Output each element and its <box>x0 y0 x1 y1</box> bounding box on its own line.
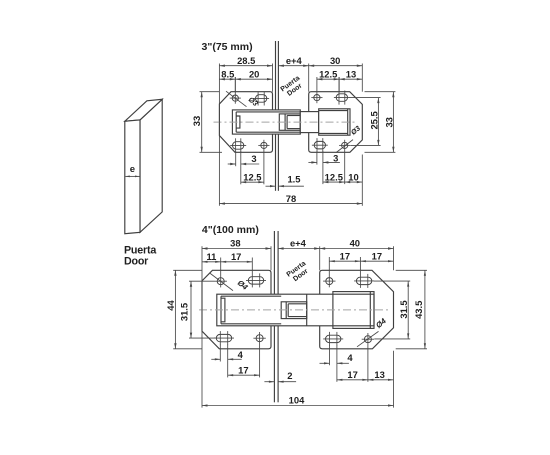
svg-text:44: 44 <box>165 300 176 311</box>
dimension e+4 (top) <box>278 65 308 67</box>
right plate outline (top hinge) <box>309 92 363 153</box>
svg-text:12.5: 12.5 <box>243 171 261 182</box>
dimension 30 <box>309 65 363 67</box>
svg-text:12.5: 12.5 <box>319 68 337 79</box>
svg-text:3"(75 mm): 3"(75 mm) <box>202 41 253 53</box>
extension lines vertical (bottom hinge) <box>201 246 203 407</box>
slot hole, right plate bottom-left (bottom hinge) <box>326 335 341 342</box>
svg-text:17: 17 <box>347 369 357 380</box>
svg-text:4: 4 <box>238 349 244 360</box>
dimension 8.5 and 20 <box>219 78 272 80</box>
dimension 33 left (top hinge) <box>200 91 220 93</box>
centerline (bottom hinge) <box>199 309 388 311</box>
dimension e+4 (bottom) <box>278 248 320 250</box>
svg-text:17: 17 <box>231 251 241 262</box>
dimension 11 and 17 (bottom left) <box>202 261 252 263</box>
slot hole, right plate top-right (bottom hinge) <box>356 277 371 284</box>
dimension 3 (top hinge left) <box>228 163 236 165</box>
dimension 17 and 13 (bottom hinge right bottom) <box>337 379 394 381</box>
screw hole round, left plate top-left <box>232 95 238 101</box>
slot hole, right plate top-right <box>336 94 347 102</box>
svg-text:38: 38 <box>230 238 240 249</box>
svg-text:33: 33 <box>384 117 395 127</box>
dimension 4 (bottom hinge right) <box>320 362 330 364</box>
slot hole, left plate bottom-left (bottom hinge) <box>216 334 231 341</box>
screw hole round, right plate top-left (bottom hinge) <box>326 278 333 285</box>
extension lines vertical (top hinge) <box>218 64 220 206</box>
dimension 43.5 (bottom hinge right) <box>396 269 427 271</box>
svg-text:2: 2 <box>287 370 292 381</box>
leader line Ø4 (bottom right plate) <box>357 331 379 346</box>
svg-text:3: 3 <box>333 152 338 163</box>
dimension 78 overall <box>219 203 362 205</box>
leader line Ø3 (right plate) <box>336 140 353 153</box>
svg-text:30: 30 <box>330 55 340 66</box>
svg-text:104: 104 <box>289 395 305 406</box>
rotated label Puerta Door (top hinge) <box>280 75 306 100</box>
dimension 12.5 and 13 (top right) <box>317 78 362 80</box>
rotated label Puerta Door (bottom hinge) <box>286 260 312 285</box>
left plate outline (bottom hinge) <box>202 270 271 349</box>
screw hole round, left plate bottom-right (bottom hinge) <box>256 335 263 342</box>
svg-text:25.5: 25.5 <box>369 111 380 129</box>
right sleeve (top hinge) <box>319 109 350 135</box>
svg-text:4: 4 <box>347 352 353 363</box>
dimension 17 and 17 (bottom right) <box>329 260 393 262</box>
slot hole, left plate top-right (bottom hinge) <box>248 277 263 284</box>
svg-text:e: e <box>130 164 135 175</box>
link block (bottom hinge) <box>281 294 307 326</box>
hinge body left sleeve (top hinge) <box>232 110 300 134</box>
slot hole, right plate bottom-left <box>314 141 325 149</box>
svg-text:10: 10 <box>348 171 358 182</box>
centerline (top hinge) <box>214 121 358 123</box>
right outer sleeve (bottom hinge) <box>333 292 374 329</box>
leader line Ø3 (left plate) <box>226 91 247 107</box>
dimension 25.5 (top hinge right) <box>350 97 381 99</box>
svg-text:31.5: 31.5 <box>179 303 190 321</box>
svg-text:12.5: 12.5 <box>325 171 343 182</box>
dimension 4 (bottom hinge left) <box>211 358 220 360</box>
leader line Ø4 (bottom left plate) <box>210 273 234 291</box>
dimension 40 <box>320 248 394 250</box>
dimension 28.5 <box>219 65 272 67</box>
svg-text:33: 33 <box>191 116 202 126</box>
svg-text:17: 17 <box>372 250 382 261</box>
door panel 3D sketch <box>125 99 162 233</box>
dimension 31.5 (bottom hinge right) <box>374 280 410 282</box>
svg-text:Door: Door <box>124 256 148 268</box>
dimension 1.5 door gap <box>266 185 276 187</box>
svg-text:e+4: e+4 <box>286 55 303 66</box>
screw hole round, right plate top-left <box>314 95 320 101</box>
svg-text:8.5: 8.5 <box>221 68 234 79</box>
dimension 2 door gap <box>264 381 274 383</box>
svg-text:11: 11 <box>206 251 216 262</box>
dimension 12.5 (top hinge left bottom) <box>241 181 264 183</box>
hinge body main sleeve (bottom hinge) <box>217 294 374 326</box>
svg-text:13: 13 <box>346 68 356 79</box>
dimension 38 <box>202 248 271 250</box>
screw hole round, right plate bottom-right <box>342 142 348 148</box>
dimension 33 right (top hinge) <box>365 91 396 93</box>
middle block (top hinge) <box>300 112 318 133</box>
screw hole round, left plate bottom-right <box>261 142 267 148</box>
dimension 104 overall <box>202 405 394 407</box>
dimension 17 (bottom hinge left bottom) <box>228 374 260 376</box>
link block (top hinge) <box>279 114 300 130</box>
screw hole round, left plate top-left (bottom hinge) <box>217 278 224 285</box>
svg-text:28.5: 28.5 <box>237 55 255 66</box>
svg-text:31.5: 31.5 <box>398 300 409 318</box>
dimension 44 (bottom hinge left) <box>173 269 202 271</box>
svg-text:17: 17 <box>340 250 350 261</box>
slot hole, left plate bottom-left <box>233 142 244 150</box>
svg-text:78: 78 <box>286 193 296 204</box>
left plate outline (top hinge) <box>219 92 272 153</box>
svg-text:3: 3 <box>251 153 256 164</box>
svg-text:17: 17 <box>238 364 248 375</box>
svg-text:4"(100 mm): 4"(100 mm) <box>202 224 259 236</box>
right plate outline (bottom hinge) <box>320 270 394 349</box>
svg-text:43.5: 43.5 <box>413 301 424 319</box>
svg-text:40: 40 <box>350 238 360 249</box>
door gap lines (top drawing) <box>275 41 277 110</box>
dimension 12.5 and 10 (top hinge right bottom) <box>323 181 362 183</box>
door gap lines (bottom drawing) <box>273 231 275 294</box>
svg-text:20: 20 <box>249 68 259 79</box>
svg-text:1.5: 1.5 <box>287 173 300 184</box>
svg-text:e+4: e+4 <box>290 238 307 249</box>
dimension 3 (top hinge right) <box>308 161 317 163</box>
dimension 31.5 (bottom hinge left) <box>189 280 215 282</box>
screw hole round, right plate bottom-right (bottom hinge) <box>364 336 371 343</box>
slot hole, left plate top-right <box>256 95 267 103</box>
svg-text:13: 13 <box>374 369 384 380</box>
